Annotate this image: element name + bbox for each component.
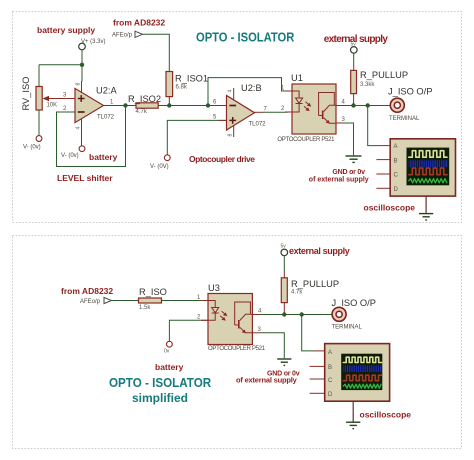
terminal 0v <box>167 341 173 347</box>
op-amp U2:B <box>213 83 268 137</box>
resistor R_PULLUP <box>351 70 408 106</box>
resistor R_PULLUP (bottom) <box>281 278 339 315</box>
svg-text:1.5k: 1.5k <box>139 305 151 311</box>
svg-text:R_ISO1: R_ISO1 <box>175 74 208 84</box>
svg-text:TL072: TL072 <box>97 115 115 121</box>
svg-text:U3: U3 <box>208 283 220 293</box>
svg-text:battery: battery <box>155 362 184 372</box>
svg-text:LEVEL shifter: LEVEL shifter <box>57 173 113 183</box>
potentiometer RV_ISO <box>21 77 75 111</box>
op-amp U2:A <box>63 81 117 130</box>
node feedback tap junction <box>206 103 210 107</box>
optocoupler U3 <box>197 283 266 352</box>
svg-text:R_PULLUP: R_PULLUP <box>360 70 408 80</box>
svg-text:from AD8232: from AD8232 <box>113 18 165 28</box>
wire U2:A output <box>113 105 136 107</box>
svg-text:battery supply: battery supply <box>37 25 95 35</box>
U1 LED <box>292 91 299 98</box>
resistor R_ISO1 <box>166 72 208 106</box>
svg-text:U1: U1 <box>291 73 303 83</box>
node pullup junction <box>351 103 355 107</box>
wire V+ down to rail <box>81 49 83 81</box>
wire R_ISO to U3 pin1 <box>162 300 209 302</box>
svg-text:A: A <box>394 144 398 150</box>
svg-text:oscilloscope: oscilloscope <box>360 410 412 420</box>
svg-text:5v: 5v <box>281 244 287 250</box>
svg-text:4: 4 <box>228 90 234 93</box>
wire RV_ISO bottom <box>38 110 40 136</box>
svg-text:battery: battery <box>89 152 118 162</box>
wire U2:A pin4 to terminal <box>81 130 83 146</box>
svg-text:10K: 10K <box>47 103 58 109</box>
svg-text:6.8k: 6.8k <box>176 85 188 91</box>
svg-text:C: C <box>394 173 399 179</box>
terminal V- (0V) for U2:B <box>164 155 170 161</box>
wire U2:B feedback to U1 pin1 <box>208 78 287 106</box>
ground under bottom oscilloscope <box>346 422 360 428</box>
svg-text:R_PULLUP: R_PULLUP <box>291 279 339 289</box>
svg-text:8: 8 <box>228 134 234 137</box>
svg-text:OPTOCOUPLER P521: OPTOCOUPLER P521 <box>277 137 335 143</box>
U3 LED <box>208 301 215 308</box>
resistor R_ISO2 <box>128 94 161 115</box>
optocoupler U1 <box>277 73 345 143</box>
svg-text:external supply: external supply <box>324 34 389 45</box>
node R_ISO1 junction <box>167 103 171 107</box>
svg-text:OPTOCOUPLER P521: OPTOCOUPLER P521 <box>208 346 266 352</box>
svg-text:J_ISO O/P: J_ISO O/P <box>332 298 376 308</box>
svg-text:V- (0v): V- (0v) <box>61 153 79 159</box>
svg-text:simplified: simplified <box>132 391 188 405</box>
svg-text:0v: 0v <box>164 349 170 355</box>
svg-text:R_ISO2: R_ISO2 <box>128 94 161 104</box>
svg-text:B: B <box>328 365 332 371</box>
node scope tap junction <box>366 103 370 107</box>
wire 5v to R_PULLUP <box>353 53 355 65</box>
wire R_ISO2 to U2:B pin6 <box>158 105 219 107</box>
U1 phototransistor <box>319 93 335 116</box>
svg-text:external supply: external supply <box>289 246 350 256</box>
svg-text:C: C <box>328 378 333 384</box>
wire U2:B output to U1 pin2 <box>263 111 292 113</box>
wire battery supply horizontal <box>39 64 82 66</box>
terminal V- (0v) under op-amp <box>79 146 85 152</box>
waveforms bottom scope <box>343 357 381 388</box>
top panel border <box>13 12 462 223</box>
svg-text:4.7k: 4.7k <box>136 109 148 115</box>
svg-text:of external supply: of external supply <box>309 176 369 183</box>
svg-text:of external supply: of external supply <box>236 375 298 384</box>
oscilloscope (bottom) <box>310 344 390 402</box>
svg-text:AFEo/p: AFEo/p <box>112 33 133 39</box>
svg-text:AFEo/p: AFEo/p <box>80 299 101 305</box>
wire AFE to R_ISO1 top <box>143 34 170 71</box>
wire U3 pin2 to 0v <box>169 320 208 341</box>
svg-text:4.7k: 4.7k <box>291 290 303 296</box>
waveforms top scope <box>409 151 447 183</box>
svg-text:D: D <box>328 392 333 398</box>
svg-text:TERMINAL: TERMINAL <box>332 325 363 331</box>
bottom panel border <box>13 236 462 449</box>
oscilloscope (top) <box>376 139 455 196</box>
svg-text:4: 4 <box>76 127 82 130</box>
svg-text:OPTO - ISOLATOR: OPTO - ISOLATOR <box>109 375 211 390</box>
node scope tap junction (bottom) <box>300 312 304 316</box>
wire U3 pin4 main run <box>260 314 333 316</box>
svg-text:GND or 0v: GND or 0v <box>332 169 365 176</box>
svg-text:U2:B: U2:B <box>241 83 262 93</box>
svg-text:8: 8 <box>76 83 82 86</box>
svg-text:OPTO - ISOLATOR: OPTO - ISOLATOR <box>196 30 295 45</box>
svg-text:J_ISO O/P: J_ISO O/P <box>388 87 432 97</box>
svg-text:V- (0V): V- (0V) <box>150 164 169 170</box>
wire scope channel A (bottom) <box>302 315 313 351</box>
svg-text:3.3kk: 3.3kk <box>360 82 375 88</box>
ground GND of external supply <box>346 156 362 162</box>
wire RV_ISO top <box>38 65 40 87</box>
wire 5v to R_PULLUP (bottom) <box>283 255 285 271</box>
wire scope channel A <box>368 106 378 146</box>
wire U2:B pin5 to terminal <box>167 120 226 154</box>
svg-text:Optocoupler drive: Optocoupler drive <box>189 154 255 164</box>
wire U1 pin4 to pullup node <box>343 105 391 107</box>
svg-text:oscilloscope: oscilloscope <box>364 203 416 213</box>
svg-text:TL072: TL072 <box>249 122 267 128</box>
wire scope ground (bottom) <box>352 401 354 421</box>
svg-text:U2:A: U2:A <box>96 86 117 96</box>
ground under top oscilloscope <box>419 214 433 220</box>
svg-text:R_ISO: R_ISO <box>139 287 167 297</box>
svg-text:from AD8232: from AD8232 <box>61 286 113 296</box>
terminal V- (0v) left <box>36 136 42 142</box>
node output junction <box>123 103 127 107</box>
svg-text:D: D <box>394 187 399 193</box>
wire AFE to R_ISO <box>112 300 139 302</box>
svg-text:B: B <box>394 158 398 164</box>
wire U3 pin3 to ground <box>260 333 285 359</box>
svg-text:TERMINAL: TERMINAL <box>389 116 420 122</box>
node junction V+ <box>80 63 84 67</box>
wire U2:A feedback loop <box>57 106 126 167</box>
U3 phototransistor <box>235 302 251 325</box>
resistor R_ISO <box>139 287 167 311</box>
svg-text:V- (0v): V- (0v) <box>23 145 41 151</box>
ground GND of external supply (bottom) <box>277 359 291 365</box>
node pullup junction (bottom) <box>282 312 286 316</box>
terminal J_ISO O/P <box>390 98 404 112</box>
svg-text:RV_ISO: RV_ISO <box>21 77 31 111</box>
wire scope ground <box>425 196 427 213</box>
svg-text:A: A <box>328 350 332 356</box>
terminal J_ISO O/P (bottom) <box>332 307 346 321</box>
wire U1 pin3 to ground <box>343 123 354 155</box>
